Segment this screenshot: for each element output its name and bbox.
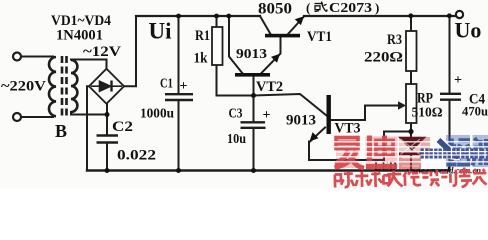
char jia bbox=[472, 169, 486, 185]
LED D1 triangle bbox=[398, 137, 427, 151]
char pin bbox=[355, 171, 369, 187]
node B junction R1-VT2-base-C3 bbox=[251, 93, 256, 98]
wire R1 bottom lead bbox=[216, 65, 218, 96]
potentiometer RP body bbox=[406, 84, 417, 123]
char she2 bbox=[422, 170, 439, 186]
wire AC top terminal to primary bbox=[21, 56, 53, 58]
junction rail-R3 bbox=[408, 13, 413, 18]
transistor VT2 base bar bbox=[235, 73, 270, 77]
watermark char di bbox=[366, 137, 398, 168]
wire C3 top lead bbox=[253, 96, 255, 122]
wire C1 bottom lead bbox=[178, 101, 180, 171]
wire bridge bottom corner stub bbox=[106, 104, 108, 115]
wire VT3 emitter down bbox=[309, 128, 411, 161]
bridge diode symbol bbox=[91, 81, 122, 92]
wire node B horizontal R1 to VT2 base bbox=[217, 95, 254, 97]
char she bbox=[335, 172, 354, 188]
wire RP bottom lead bbox=[410, 123, 412, 138]
watermark char pei (blue) bbox=[446, 135, 470, 167]
capacitor C2 plates bbox=[97, 136, 119, 143]
glyph 或 in (或C2073) bbox=[315, 2, 328, 12]
watermark logo square bbox=[399, 137, 421, 170]
watermark stripes over big chars bbox=[334, 142, 488, 162]
watermark char yi (easy) bbox=[336, 137, 359, 168]
transistor VT1 base bar bbox=[265, 34, 300, 38]
junction ground-C3 bbox=[251, 168, 256, 173]
wire C4 bottom lead bbox=[449, 100, 451, 171]
char ji bbox=[441, 170, 456, 186]
junction rail-R1 bbox=[214, 14, 219, 19]
wire VT1 collector bbox=[260, 16, 271, 34]
wire VT3 collector to RP wiper bbox=[331, 106, 400, 121]
watermark bottom red row: she pin he tian xian she ji zhuan jia bbox=[335, 167, 487, 190]
transformer B secondary winding bbox=[71, 60, 77, 112]
LED D1 cathode bar bbox=[399, 152, 425, 155]
wire C2 bottom lead bbox=[106, 143, 108, 171]
char zhuan bbox=[459, 167, 472, 187]
wire R3 to RP lead bbox=[410, 71, 412, 84]
transistor VT2 emitter arrowhead bbox=[271, 54, 280, 63]
wire top rail Uo bbox=[304, 15, 456, 17]
wire bridge plus to rail corner bbox=[124, 16, 136, 86]
junction ground-C2 bbox=[105, 168, 110, 173]
capacitor C1 plates bbox=[165, 94, 193, 100]
wire C4 top lead bbox=[449, 16, 451, 93]
char tian bbox=[387, 170, 402, 186]
transformer core bbox=[62, 56, 67, 116]
resistor R1 body bbox=[212, 27, 223, 65]
wire VT3 base bbox=[254, 94, 327, 116]
char he bbox=[369, 171, 390, 187]
wire VT2 collector bbox=[229, 16, 243, 74]
terminal input top bbox=[13, 53, 21, 61]
wire VT2 base lead bbox=[253, 77, 255, 96]
wire LED cathode to ground bbox=[410, 153, 412, 171]
junction rail-VT2-collector bbox=[226, 14, 231, 19]
transformer B primary winding bbox=[49, 57, 56, 116]
char xian bbox=[403, 171, 421, 186]
wire ground rail bbox=[87, 169, 450, 171]
capacitor C4 plates bbox=[440, 94, 461, 100]
wire R1 top lead bbox=[216, 16, 218, 27]
capacitor C3 plates bbox=[241, 122, 266, 128]
potentiometer RP wiper arrowhead bbox=[398, 101, 406, 110]
wire VT1 emitter bbox=[288, 17, 304, 34]
wire bridge minus down bbox=[87, 86, 89, 170]
transistor VT3 base bar bbox=[327, 95, 331, 134]
wire C3 bottom lead bbox=[253, 129, 255, 171]
watermark blue text row zhong guo gong cheng shi pei xun wang bbox=[421, 149, 488, 159]
junction bridge-bottom-C2 bbox=[105, 112, 110, 117]
resistor R3 body bbox=[406, 31, 417, 71]
wire secondary bottom to bridge bottom node bbox=[71, 112, 107, 115]
watermark navy arrow bbox=[439, 140, 460, 160]
wire C2 top lead bbox=[106, 115, 108, 136]
terminal output Uo bbox=[456, 11, 463, 18]
watermark red logo fragment right of LED bbox=[421, 137, 430, 156]
bridge rectifier VD1-VD4 diamond bbox=[89, 69, 124, 104]
watermark char xun (blue) bbox=[473, 135, 488, 167]
wire C1 top lead bbox=[178, 16, 180, 94]
terminal input bottom bbox=[13, 113, 21, 121]
transistor VT1 emitter arrowhead bbox=[295, 16, 304, 25]
transistor VT3 emitter arrowhead bbox=[310, 132, 319, 141]
wire VT2 emitter to VT1 base bbox=[261, 38, 281, 74]
junction rail-C1 bbox=[176, 14, 181, 19]
wire top rail Ui bbox=[136, 15, 260, 17]
junction RP-LED bbox=[408, 129, 413, 134]
junction ground-C1 bbox=[176, 168, 181, 173]
wire secondary top to bridge bbox=[71, 60, 107, 69]
junction rail-C4 bbox=[447, 13, 452, 18]
wire R3 top lead bbox=[410, 16, 412, 31]
watermark layer bbox=[0, 0, 488, 189]
wire AC bottom terminal to primary bbox=[21, 116, 53, 118]
